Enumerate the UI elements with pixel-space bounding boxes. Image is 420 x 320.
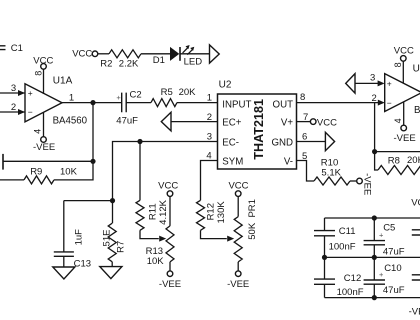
ground (C13) bbox=[53, 267, 75, 279]
capacitor C2 47uF bbox=[116, 89, 141, 126]
op-amp U1B BA4560 bbox=[385, 63, 420, 116]
svg-text:+: + bbox=[28, 88, 33, 98]
svg-text:+: + bbox=[116, 93, 121, 102]
svg-text:R8: R8 bbox=[388, 155, 400, 166]
svg-text:10K: 10K bbox=[147, 256, 165, 267]
svg-text:EC-: EC- bbox=[222, 137, 239, 148]
wire (U1A output, pin 1) bbox=[62, 93, 122, 104]
svg-text:10K: 10K bbox=[60, 166, 78, 177]
svg-text:C13: C13 bbox=[74, 259, 91, 270]
svg-text:51E: 51E bbox=[101, 230, 112, 247]
svg-text:D1: D1 bbox=[153, 55, 165, 66]
svg-text:INPUT: INPUT bbox=[222, 99, 251, 110]
svg-text:4: 4 bbox=[206, 150, 211, 161]
svg-text:4: 4 bbox=[393, 118, 403, 123]
svg-text:C5: C5 bbox=[383, 222, 395, 233]
svg-text:U2: U2 bbox=[219, 79, 232, 90]
svg-text:VCC: VCC bbox=[158, 180, 178, 191]
wire bbox=[141, 53, 170, 55]
svg-text:8: 8 bbox=[33, 71, 43, 76]
svg-text:LED: LED bbox=[184, 56, 203, 67]
power -VEE (R10 end) bbox=[357, 173, 373, 195]
wire (EC- node to C13) bbox=[64, 200, 113, 202]
svg-text:8: 8 bbox=[300, 92, 305, 103]
wire bbox=[180, 53, 210, 55]
svg-text:U1A: U1A bbox=[53, 75, 73, 86]
svg-text:+: + bbox=[387, 79, 392, 89]
svg-text:C10: C10 bbox=[384, 263, 401, 274]
resistor R11 4.12K bbox=[136, 142, 169, 239]
svg-text:R7: R7 bbox=[116, 241, 127, 253]
wire (to cropped left terminal) bbox=[3, 154, 93, 170]
power -VEE (rail, cropped) bbox=[409, 306, 420, 317]
node (bottom rail) bbox=[372, 295, 377, 300]
svg-text:R9: R9 bbox=[30, 166, 42, 177]
resistor R8 20K bbox=[375, 152, 420, 175]
resistor R2 2.2K bbox=[100, 50, 141, 70]
potentiometer R13 10K bbox=[146, 180, 181, 290]
svg-text:-VEE: -VEE bbox=[394, 133, 416, 144]
svg-text:5: 5 bbox=[302, 151, 307, 162]
svg-text:VCC: VCC bbox=[228, 181, 248, 192]
wire (GND rail) bbox=[325, 256, 420, 258]
svg-text:4: 4 bbox=[33, 129, 43, 134]
svg-text:2: 2 bbox=[207, 112, 212, 123]
svg-text:V-: V- bbox=[284, 157, 293, 168]
wire (U2 V- pin 5) bbox=[297, 151, 315, 181]
svg-text:2: 2 bbox=[11, 102, 16, 113]
svg-text:8: 8 bbox=[393, 62, 403, 67]
svg-text:R11: R11 bbox=[148, 203, 159, 220]
resistor R10 5.1K bbox=[314, 157, 357, 185]
svg-text:20K: 20K bbox=[179, 87, 197, 98]
power -VEE (U1A pin 4) bbox=[33, 112, 55, 152]
svg-text:SYM: SYM bbox=[222, 157, 243, 168]
svg-text:-VEE: -VEE bbox=[159, 279, 181, 290]
op-amp U1A BA4560 bbox=[25, 75, 88, 126]
wire (VCC rail) bbox=[325, 217, 420, 219]
svg-text:3: 3 bbox=[11, 83, 16, 94]
off-page connector arrow (EC+ control input) bbox=[161, 112, 217, 131]
capacitor C12 100nF bbox=[314, 257, 364, 298]
power VCC (U1A pin 8) bbox=[33, 56, 53, 94]
off-page connector arrow (GND, pin 6) bbox=[297, 132, 335, 151]
svg-text:6: 6 bbox=[302, 132, 307, 143]
svg-text:C2: C2 bbox=[130, 89, 142, 100]
svg-text:VCC: VCC bbox=[394, 46, 414, 57]
off-page connector arrow (U1B + input) bbox=[346, 73, 385, 94]
svg-text:100nF: 100nF bbox=[329, 242, 356, 253]
capacitor C11 100nF bbox=[314, 218, 356, 257]
svg-text:-VEE: -VEE bbox=[227, 279, 249, 290]
svg-text:R5: R5 bbox=[161, 87, 173, 98]
svg-text:VCC: VCC bbox=[411, 197, 420, 208]
LED D1 bbox=[153, 45, 202, 67]
svg-text:−: − bbox=[28, 107, 33, 117]
svg-text:VCC: VCC bbox=[317, 118, 337, 129]
svg-text:C11: C11 bbox=[339, 226, 356, 237]
svg-text:THAT2181: THAT2181 bbox=[252, 99, 266, 160]
svg-text:100nF: 100nF bbox=[337, 287, 364, 298]
svg-text:VCC: VCC bbox=[72, 49, 92, 60]
wire (U2 SYM pin 4) bbox=[201, 150, 218, 200]
svg-text:BA4560: BA4560 bbox=[414, 105, 420, 116]
power VCC (U2 pin 7) bbox=[297, 112, 338, 129]
node (feedback junction) bbox=[90, 159, 95, 164]
svg-text:-VEE: -VEE bbox=[33, 142, 55, 153]
capacitor C1 (cropped at left edge) bbox=[0, 43, 23, 54]
power VCC (rail, cropped) bbox=[411, 197, 420, 208]
resistor R12 130K bbox=[197, 200, 228, 238]
node (mid rail left) bbox=[322, 255, 327, 260]
svg-text:47uF: 47uF bbox=[383, 285, 405, 296]
svg-text:20K: 20K bbox=[407, 155, 420, 166]
wiper arrow (PR1) bbox=[227, 236, 234, 242]
IC U2 THAT2181 bbox=[218, 79, 297, 169]
wire (-VEE rail) bbox=[325, 297, 420, 299]
wire (U1A pin2 input) bbox=[0, 102, 25, 115]
capacitor C10 47uF bbox=[364, 257, 405, 297]
svg-text:GND: GND bbox=[271, 137, 293, 148]
svg-text:-VEE: -VEE bbox=[361, 173, 372, 195]
svg-text:5.1K: 5.1K bbox=[321, 167, 341, 178]
svg-text:C12: C12 bbox=[344, 273, 361, 284]
svg-text:OUT: OUT bbox=[273, 99, 294, 110]
wire (U2 EC- pin 3) bbox=[113, 132, 218, 201]
wire (to cropped right) bbox=[375, 151, 420, 153]
wire bbox=[92, 103, 94, 162]
off-page connector arrow (right) bbox=[210, 45, 220, 63]
svg-text:4.12K: 4.12K bbox=[158, 199, 169, 224]
resistor R9 10K bbox=[0, 161, 93, 184]
svg-text:-VEE: -VEE bbox=[409, 306, 420, 317]
node (mid rail right) bbox=[372, 255, 377, 260]
resistor R7 51E bbox=[101, 201, 126, 267]
wire (U1B inverting node) bbox=[374, 103, 376, 152]
svg-text:3: 3 bbox=[207, 132, 212, 143]
svg-text:1uF: 1uF bbox=[74, 229, 85, 246]
capacitor (cropped, right edge bottom) bbox=[412, 275, 420, 280]
node (U1A output junction) bbox=[90, 100, 95, 105]
ground (R7) bbox=[100, 267, 122, 279]
power -VEE (U1B pin 4) bbox=[393, 102, 416, 144]
power VCC (U1B pin 8) bbox=[393, 46, 414, 84]
resistor R5 20K bbox=[151, 87, 196, 106]
node (EC- / R11 junction) bbox=[137, 139, 142, 144]
svg-text:V+: V+ bbox=[281, 118, 293, 129]
wire bbox=[126, 102, 151, 104]
power VCC (R2 supply terminal) bbox=[72, 49, 109, 60]
node (C13 / R7 junction) bbox=[110, 198, 115, 203]
svg-text:2: 2 bbox=[372, 93, 377, 104]
wire (to U2 INPUT pin 1) bbox=[177, 92, 218, 103]
svg-text:47uF: 47uF bbox=[116, 115, 138, 126]
svg-text:VCC: VCC bbox=[33, 56, 53, 67]
node (C5 top) bbox=[372, 215, 377, 220]
svg-text:BA4560: BA4560 bbox=[53, 116, 88, 127]
potentiometer PR1 50K bbox=[227, 181, 258, 291]
svg-text:C1: C1 bbox=[11, 43, 23, 54]
capacitor (cropped, right edge top) bbox=[412, 230, 420, 235]
svg-text:47uF: 47uF bbox=[383, 246, 405, 257]
svg-text:2.2K: 2.2K bbox=[119, 59, 139, 70]
svg-text:3: 3 bbox=[370, 73, 375, 84]
svg-text:U1B: U1B bbox=[413, 63, 420, 74]
svg-text:R12: R12 bbox=[206, 203, 217, 220]
wire (U1A pin3 input) bbox=[0, 83, 25, 96]
svg-text:1: 1 bbox=[69, 93, 74, 104]
node (R8 junction) bbox=[372, 149, 377, 154]
svg-text:EC+: EC+ bbox=[222, 118, 241, 129]
svg-text:R2: R2 bbox=[100, 59, 112, 70]
svg-text:130K: 130K bbox=[216, 201, 227, 224]
svg-text:−: − bbox=[387, 98, 392, 108]
wire (U2 OUT pin 8 to U1B) bbox=[297, 92, 385, 106]
svg-text:1: 1 bbox=[207, 92, 212, 103]
capacitor C13 1uF bbox=[54, 201, 91, 270]
svg-text:7: 7 bbox=[303, 112, 308, 123]
wiper arrow (R13) bbox=[159, 236, 166, 242]
capacitor C5 47uF bbox=[364, 218, 405, 257]
svg-text:50K PR1: 50K PR1 bbox=[247, 199, 258, 240]
